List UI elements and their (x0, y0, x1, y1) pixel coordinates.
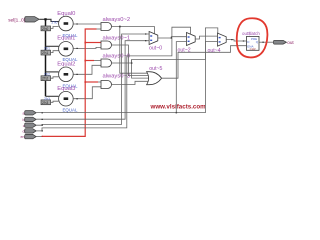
comparator Equal2 (44, 62, 78, 89)
wire Equal1 out to and2 (73, 47, 101, 48)
node sel bus junction (44, 18, 46, 20)
svg-text:2'h0: 2'h0 (42, 27, 48, 31)
wire and3 output to mux3 select (112, 28, 218, 63)
node junctions (131, 62, 177, 113)
svg-text:sel[1..0]: sel[1..0] (8, 17, 25, 23)
input port sel[1:0] (8, 17, 39, 24)
comparator Equal0 (52, 11, 78, 38)
svg-text:2'h2: 2'h2 (42, 77, 48, 81)
wire and2 output to or in2 (112, 45, 149, 76)
constant 2'h0 (41, 26, 59, 31)
svg-text:2'h0: 2'h0 (52, 21, 58, 25)
wire port b to mux1 data1 (36, 41, 149, 120)
constant 2'h1 (41, 50, 59, 55)
wire bus tap to Equal2 (46, 71, 59, 73)
wire port en stub (36, 135, 42, 137)
svg-text:out: out (287, 40, 294, 45)
svg-text:out~4: out~4 (208, 48, 221, 54)
wire latch q to out port (259, 41, 273, 43)
tick red en (42, 136, 43, 137)
input port en (21, 134, 37, 139)
svg-text:out~0: out~0 (149, 45, 162, 51)
wire mux1 out to mux2 (158, 37, 187, 38)
svg-text:d: d (23, 130, 25, 134)
svg-text:Equal1: Equal1 (57, 35, 75, 41)
and gate always0~2 (101, 17, 130, 30)
wire Equal0 out to and1 (73, 23, 101, 25)
and gate always0~0 (101, 54, 130, 67)
input port b (23, 117, 37, 122)
svg-text:2'h2: 2'h2 (44, 73, 50, 77)
svg-text:out~2: out~2 (178, 48, 191, 54)
annotation red circle around latch (237, 18, 268, 57)
wire or out to latch ena (162, 46, 247, 78)
output port out (274, 40, 295, 45)
node and1 junction (119, 26, 121, 28)
wire port c to mux1 data0 (36, 34, 149, 125)
input port a (23, 111, 37, 116)
mux out~2 (178, 33, 196, 54)
wire Equal3 out to and4 (73, 87, 101, 99)
and gate always0~3 (101, 74, 130, 89)
wire sel bus vertical (45, 19, 47, 96)
constant 2'h2 (41, 76, 59, 81)
input port c (23, 123, 36, 128)
comparator Equal3 (44, 86, 78, 113)
constant 2'h3 (41, 100, 59, 105)
svg-text:en: en (21, 135, 25, 139)
svg-text:out$latch: out$latch (242, 31, 260, 36)
svg-text:CLR: CLR (250, 47, 257, 51)
wire red highlighted en net (42, 29, 101, 136)
wire port a branch to mux2 data0 (176, 42, 186, 113)
svg-text:2'h1: 2'h1 (42, 51, 48, 55)
wire and1 branch to or in1 (120, 27, 148, 74)
or gate out~5 (147, 66, 163, 85)
node red junctions (84, 42, 86, 83)
wire port a to mux3 data0 (36, 42, 217, 113)
wire Equal2 out to and3 (73, 65, 101, 74)
wire and4 output to or in4 (112, 81, 149, 84)
svg-text:always0~3: always0~3 (103, 74, 131, 80)
and gate always0~1 (101, 36, 130, 49)
svg-text:2'h3: 2'h3 (44, 97, 50, 101)
svg-text:a: a (23, 111, 25, 115)
mux out~4 (208, 33, 227, 54)
wire bus tap to Equal3 (46, 95, 59, 97)
svg-text:b: b (23, 118, 25, 122)
wire and1 output to mux1 select (112, 27, 155, 34)
svg-text:2'h3: 2'h3 (42, 101, 48, 105)
tick marks (42, 23, 264, 131)
wire port d to mux2 select (36, 27, 190, 131)
svg-text:2'h1: 2'h1 (44, 47, 50, 51)
latch out$latch (242, 31, 260, 51)
svg-text:EQUAL: EQUAL (63, 108, 78, 113)
wire sel port to bus (39, 19, 58, 21)
mux out~0 (149, 32, 162, 52)
wire mux3 out to latch d (226, 40, 246, 41)
wire and3 branch to or in3 (132, 60, 149, 79)
wire bus tap to Equal1 (46, 45, 59, 47)
wire mux2 out to mux3 (195, 36, 217, 39)
svg-text:out~5: out~5 (149, 66, 162, 72)
comparator Equal1 (44, 35, 78, 62)
svg-text:www.vlsifacts.com: www.vlsifacts.com (150, 104, 207, 111)
input port d (23, 129, 37, 134)
